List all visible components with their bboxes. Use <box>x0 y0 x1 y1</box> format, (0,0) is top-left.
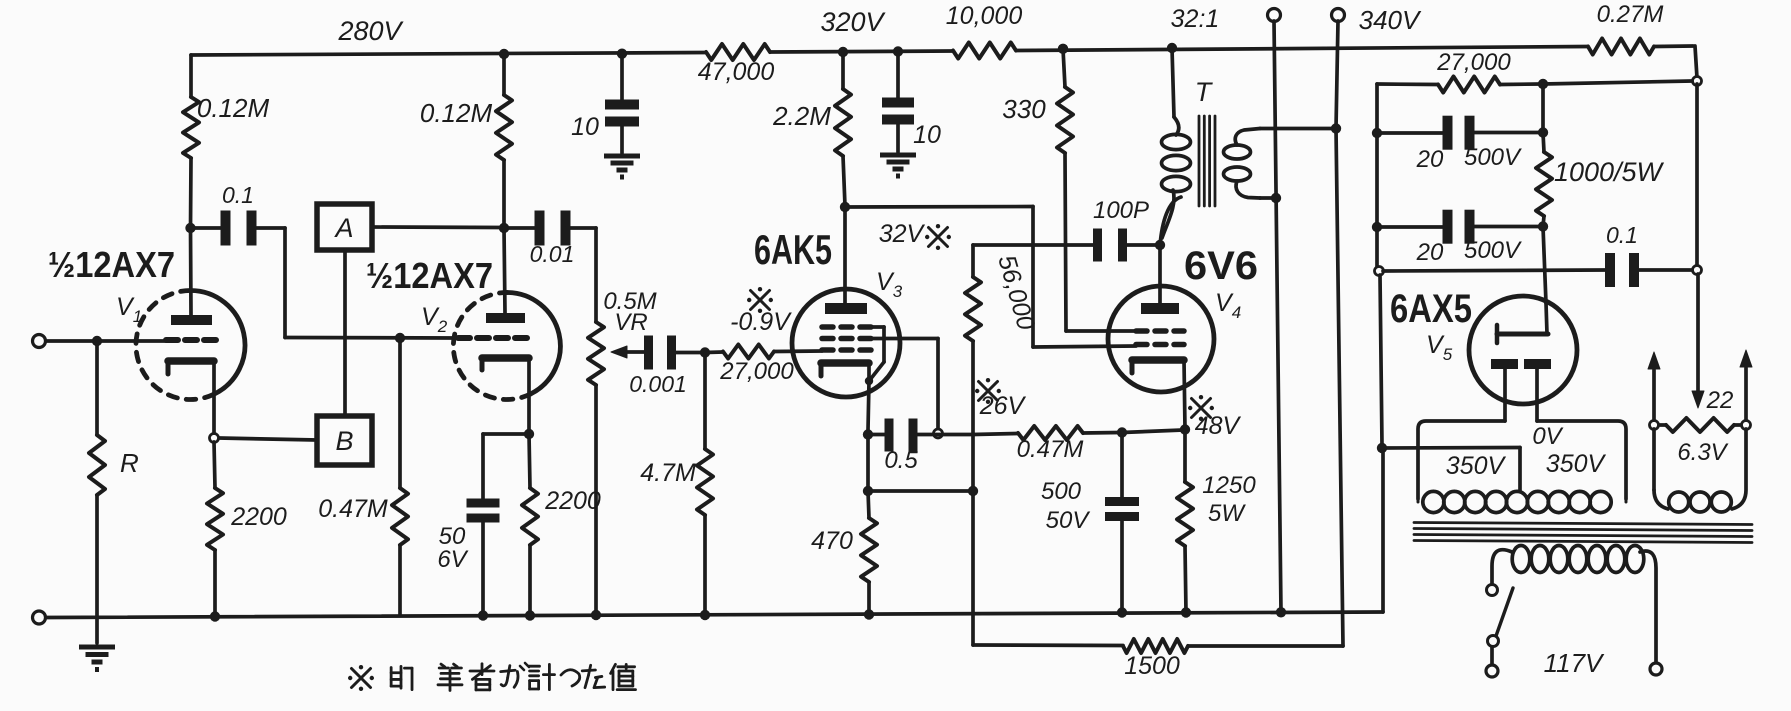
svg-text:0.001: 0.001 <box>629 371 687 397</box>
svg-text:26V: 26V <box>979 392 1027 420</box>
svg-text:5W: 5W <box>1208 500 1246 527</box>
svg-text:6AK5: 6AK5 <box>754 226 832 273</box>
svg-text:32:1: 32:1 <box>1171 5 1220 33</box>
svg-text:VR: VR <box>614 309 647 336</box>
svg-text:A: A <box>333 213 353 243</box>
svg-text:6AX5: 6AX5 <box>1390 287 1472 331</box>
svg-text:1500: 1500 <box>1124 652 1180 680</box>
svg-text:½12AX7: ½12AX7 <box>366 255 493 296</box>
svg-text:10,000: 10,000 <box>946 2 1023 30</box>
svg-text:280V: 280V <box>337 16 404 46</box>
svg-text:20: 20 <box>1416 146 1444 173</box>
svg-text:6V: 6V <box>437 546 468 573</box>
svg-text:2200: 2200 <box>230 503 287 531</box>
svg-text:27,000: 27,000 <box>719 358 794 385</box>
svg-text:0.5: 0.5 <box>884 447 918 474</box>
svg-text:R: R <box>120 448 139 478</box>
svg-text:0.1: 0.1 <box>1606 222 1638 248</box>
svg-text:0.47M: 0.47M <box>1017 436 1084 463</box>
svg-text:6V6: 6V6 <box>1184 244 1258 288</box>
svg-text:0V: 0V <box>1532 423 1563 450</box>
svg-text:27,000: 27,000 <box>1436 49 1511 76</box>
svg-text:500V: 500V <box>1464 144 1522 171</box>
svg-text:500V: 500V <box>1464 237 1522 264</box>
svg-text:500: 500 <box>1041 478 1082 505</box>
svg-text:50V: 50V <box>1046 507 1091 534</box>
svg-text:47,000: 47,000 <box>698 58 775 86</box>
svg-text:1000/5W: 1000/5W <box>1554 157 1665 187</box>
svg-text:20: 20 <box>1416 239 1444 266</box>
svg-text:0.1: 0.1 <box>222 182 254 208</box>
svg-text:½12AX7: ½12AX7 <box>48 244 175 285</box>
svg-text:T: T <box>1195 77 1214 107</box>
svg-text:117V: 117V <box>1544 648 1605 678</box>
svg-text:48V: 48V <box>1195 412 1242 440</box>
svg-text:10: 10 <box>913 121 941 149</box>
svg-text:32V: 32V <box>879 220 926 248</box>
svg-text:22: 22 <box>1706 387 1734 414</box>
svg-text:2200: 2200 <box>544 487 601 515</box>
svg-text:350V: 350V <box>1546 450 1607 478</box>
svg-text:0.47M: 0.47M <box>318 495 388 523</box>
svg-text:10: 10 <box>571 113 599 141</box>
svg-text:350V: 350V <box>1446 452 1507 480</box>
svg-text:1250: 1250 <box>1202 472 1256 499</box>
svg-text:100P: 100P <box>1093 197 1149 224</box>
svg-text:0.27M: 0.27M <box>1597 1 1664 28</box>
svg-text:0.01: 0.01 <box>530 241 575 267</box>
svg-text:6.3V: 6.3V <box>1677 439 1728 466</box>
svg-text:B: B <box>335 426 353 456</box>
svg-text:-0.9V: -0.9V <box>730 308 792 336</box>
svg-text:340V: 340V <box>1359 5 1422 35</box>
svg-text:0.12M: 0.12M <box>420 98 493 128</box>
svg-text:470: 470 <box>811 527 853 555</box>
svg-text:330: 330 <box>1002 94 1046 124</box>
svg-text:4.7M: 4.7M <box>640 459 696 487</box>
svg-text:0.12M: 0.12M <box>197 93 270 123</box>
svg-text:320V: 320V <box>820 7 886 37</box>
svg-text:2.2M: 2.2M <box>772 101 831 131</box>
